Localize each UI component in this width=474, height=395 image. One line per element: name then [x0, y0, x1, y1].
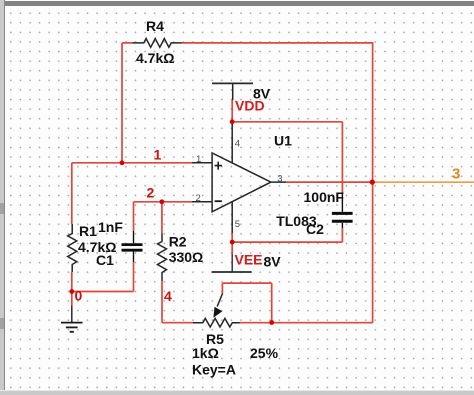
wire node2 down to R2 top — [161, 202, 163, 234]
svg-text:1nF: 1nF — [98, 219, 123, 235]
svg-text:U1: U1 — [274, 133, 292, 149]
capacitor C2 — [332, 193, 353, 228]
svg-text:TL083: TL083 — [276, 213, 317, 229]
wire pin4 red segment — [231, 100, 233, 122]
wire R4 right to top-right corner — [182, 42, 373, 44]
junction node 0 — [69, 289, 74, 294]
svg-text:4: 4 — [235, 139, 240, 150]
wire output red — [286, 181, 373, 183]
resistor R1 — [68, 224, 77, 272]
junction bottom wiper — [269, 320, 274, 325]
junction VEE — [230, 240, 235, 245]
svg-text:2: 2 — [196, 193, 201, 204]
wire wiper down to bottom wire — [271, 283, 273, 323]
wire wiper vertical — [221, 283, 223, 294]
potentiometer R5 — [193, 294, 240, 328]
wire node4 corner to R5 left — [162, 322, 193, 324]
svg-text:4: 4 — [164, 288, 172, 304]
op-amp U1 minus marker — [215, 200, 222, 202]
svg-text:VDD: VDD — [235, 98, 265, 114]
svg-text:1: 1 — [154, 147, 162, 163]
wire pin5 red segment — [231, 233, 233, 254]
svg-text:C1: C1 — [96, 252, 114, 268]
svg-text:Key=A: Key=A — [192, 362, 236, 378]
wire R1 bottom to node 0 — [71, 272, 73, 292]
svg-text:R1: R1 — [79, 223, 97, 239]
wire VDD branch down to C2 top — [341, 122, 343, 194]
svg-text:8V: 8V — [264, 254, 282, 270]
wire wiper horizontal — [222, 282, 271, 284]
capacitor C1 — [122, 231, 143, 262]
wire node0 horizontal to C1 bottom — [72, 291, 134, 293]
wire right vertical lower — [372, 182, 374, 323]
svg-text:25%: 25% — [250, 345, 279, 361]
wire node1 vertical from R4 — [121, 43, 123, 163]
junction output node 3 — [370, 180, 375, 185]
wire C1 bottom to node0 wire — [133, 262, 135, 292]
junction VDD — [230, 119, 235, 124]
svg-text:1kΩ: 1kΩ — [192, 345, 219, 361]
wire output orange node 3 — [373, 181, 474, 183]
svg-text:4.7kΩ: 4.7kΩ — [136, 50, 174, 66]
wire top from R4 left corner — [122, 42, 132, 44]
wire node1 horizontal to +input — [72, 162, 192, 164]
wire node0 to ground stub — [71, 292, 73, 306]
potentiometer R5 wiper arrowhead — [213, 307, 222, 318]
wire C2 bottom vertical — [341, 228, 343, 242]
VEE power symbol — [212, 254, 252, 272]
wire left vertical to R1 top — [71, 163, 73, 224]
resistor R4 — [132, 39, 181, 48]
svg-text:VEE: VEE — [235, 252, 263, 268]
svg-text:R2: R2 — [169, 234, 187, 250]
svg-text:1: 1 — [196, 154, 201, 165]
wire right vertical upper (feedback) — [372, 42, 374, 182]
svg-text:3: 3 — [452, 166, 460, 183]
wire R5 right to bottom-right corner — [240, 322, 373, 324]
svg-text:R4: R4 — [146, 18, 164, 34]
op-amp U1 plus marker — [215, 162, 222, 202]
wire R2 bottom to node 4 corner — [161, 281, 163, 323]
svg-text:0: 0 — [75, 287, 83, 303]
wire C2 bottom horizontal to VEE node — [232, 241, 342, 243]
svg-text:3: 3 — [277, 173, 282, 184]
op-amp U1 — [192, 84, 286, 233]
wire node2 down to C1 top — [133, 202, 135, 231]
junction node 2 — [160, 199, 165, 204]
wire node2 horizontal to -input — [134, 201, 193, 203]
VDD power symbol — [212, 82, 253, 84]
wire VDD horizontal — [232, 121, 342, 123]
svg-text:100nF: 100nF — [304, 189, 345, 205]
svg-text:5: 5 — [235, 219, 240, 230]
svg-text:2: 2 — [147, 185, 155, 201]
junction node 1 — [120, 160, 125, 165]
ground — [61, 306, 83, 332]
svg-text:330Ω: 330Ω — [169, 249, 204, 265]
resistor R2 — [158, 234, 167, 282]
